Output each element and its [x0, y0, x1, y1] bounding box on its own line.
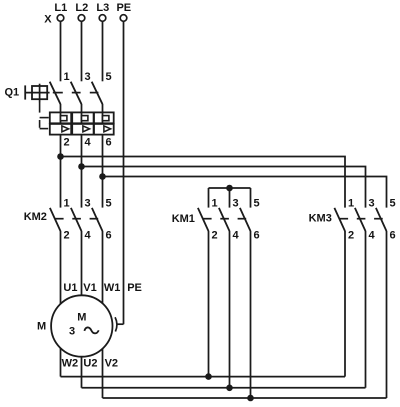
svg-text:2: 2	[348, 230, 354, 242]
svg-text:L2: L2	[75, 2, 88, 14]
svg-text:1: 1	[64, 198, 70, 210]
svg-text:6: 6	[106, 137, 112, 149]
svg-text:1: 1	[348, 198, 354, 210]
svg-text:V2: V2	[105, 358, 118, 370]
svg-text:4: 4	[85, 230, 92, 242]
svg-text:PE: PE	[116, 2, 131, 14]
svg-text:1: 1	[212, 198, 218, 210]
svg-text:2: 2	[64, 230, 70, 242]
svg-text:KM1: KM1	[172, 213, 195, 225]
svg-text:M: M	[77, 312, 86, 324]
svg-text:U2: U2	[83, 358, 97, 370]
svg-text:L1: L1	[54, 2, 67, 14]
svg-text:4: 4	[85, 137, 92, 149]
svg-text:6: 6	[254, 230, 260, 242]
svg-text:6: 6	[390, 230, 396, 242]
svg-text:5: 5	[106, 71, 112, 83]
svg-text:W2: W2	[62, 358, 79, 370]
svg-text:3: 3	[69, 326, 75, 338]
svg-text:3: 3	[85, 198, 91, 210]
svg-text:1: 1	[64, 71, 70, 83]
svg-text:4: 4	[369, 230, 376, 242]
svg-text:L3: L3	[96, 2, 109, 14]
svg-text:V1: V1	[83, 282, 96, 294]
svg-text:X: X	[44, 13, 52, 25]
svg-text:4: 4	[233, 230, 240, 242]
svg-text:PE: PE	[127, 282, 142, 294]
svg-text:5: 5	[106, 198, 112, 210]
svg-text:5: 5	[390, 198, 396, 210]
svg-text:3: 3	[233, 198, 239, 210]
svg-text:U1: U1	[63, 282, 77, 294]
svg-text:Q1: Q1	[5, 87, 20, 99]
svg-text:6: 6	[106, 230, 112, 242]
svg-text:KM2: KM2	[24, 211, 47, 223]
svg-text:3: 3	[369, 198, 375, 210]
svg-text:5: 5	[254, 198, 260, 210]
svg-text:3: 3	[85, 71, 91, 83]
svg-text:2: 2	[212, 230, 218, 242]
svg-text:W1: W1	[104, 282, 121, 294]
svg-text:M: M	[37, 321, 46, 333]
svg-text:2: 2	[64, 137, 70, 149]
svg-text:KM3: KM3	[309, 213, 332, 225]
